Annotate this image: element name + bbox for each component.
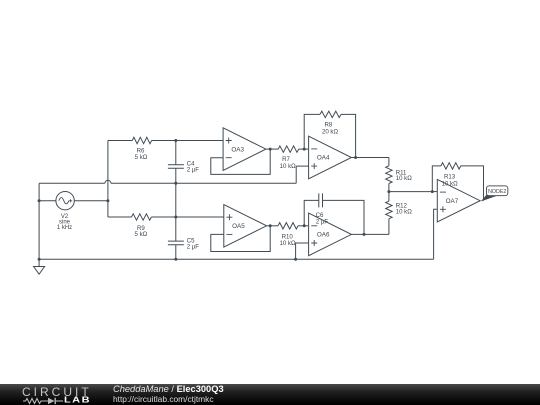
svg-text:OA4: OA4	[317, 155, 330, 162]
svg-text:NODE2: NODE2	[488, 189, 506, 195]
svg-text:10 kΩ: 10 kΩ	[442, 180, 459, 187]
svg-text:10 kΩ: 10 kΩ	[396, 175, 413, 182]
svg-text:10 kΩ: 10 kΩ	[279, 240, 296, 247]
svg-text:5 kΩ: 5 kΩ	[135, 231, 148, 238]
svg-text:OA7: OA7	[446, 198, 459, 205]
svg-text:2 µF: 2 µF	[187, 167, 200, 174]
svg-text:20 kΩ: 20 kΩ	[322, 128, 339, 135]
svg-text:R8: R8	[325, 121, 333, 128]
svg-text:1 kHz: 1 kHz	[57, 225, 72, 231]
svg-text:OA6: OA6	[317, 232, 330, 239]
svg-text:5 kΩ: 5 kΩ	[135, 154, 148, 161]
svg-text:2 µF: 2 µF	[187, 244, 200, 251]
svg-text:OA3: OA3	[231, 146, 244, 153]
svg-text:10 kΩ: 10 kΩ	[280, 163, 297, 170]
svg-text:OA5: OA5	[232, 223, 245, 230]
svg-text:10 kΩ: 10 kΩ	[396, 209, 413, 216]
svg-text:2 µF: 2 µF	[316, 218, 329, 225]
